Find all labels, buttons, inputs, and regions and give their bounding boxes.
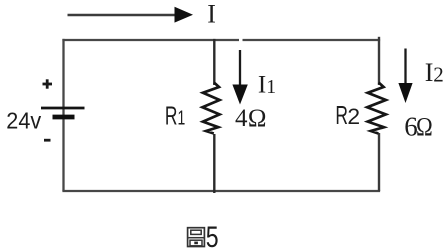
svg-text:I: I (425, 58, 434, 87)
label I1 (258, 72, 276, 99)
svg-text:Ω: Ω (248, 105, 267, 132)
battery V1 long plate (+) (41, 107, 85, 110)
current arrow I2 (398, 49, 412, 104)
battery minus sign (44, 139, 51, 142)
current arrow I1 (232, 50, 247, 105)
label R1 (165, 101, 185, 130)
resistor R2 zigzag (367, 83, 386, 134)
label R2 (335, 101, 360, 130)
svg-text:4: 4 (235, 105, 248, 132)
svg-text:I: I (258, 72, 266, 99)
svg-text:24v: 24v (6, 108, 42, 134)
svg-text:R: R (165, 101, 178, 130)
svg-text:Ω: Ω (416, 113, 433, 142)
svg-text:I: I (207, 0, 216, 28)
battery plus sign (43, 79, 53, 88)
wire top (62, 39, 380, 41)
svg-text:1: 1 (178, 106, 186, 129)
svg-text:R: R (335, 101, 348, 130)
label 4 ohm (235, 105, 266, 132)
caption figure glyph (CJK tu) drawn as strokes (188, 228, 205, 247)
wire middle top (213, 39, 215, 85)
label I2 (425, 58, 444, 87)
resistor R1 zigzag (202, 83, 219, 134)
svg-text:2: 2 (347, 105, 360, 130)
battery V1 short plate (-) (53, 115, 75, 120)
wire middle bottom (213, 134, 215, 193)
label 6 ohm (404, 112, 432, 142)
svg-text:1: 1 (266, 76, 276, 98)
svg-text:5: 5 (206, 220, 219, 251)
current arrow I (top) (68, 7, 194, 23)
svg-text:2: 2 (433, 63, 444, 87)
wire bottom (62, 190, 380, 192)
wire right bottom (378, 133, 380, 191)
wire right top (378, 37, 380, 85)
wire left (62, 39, 64, 191)
